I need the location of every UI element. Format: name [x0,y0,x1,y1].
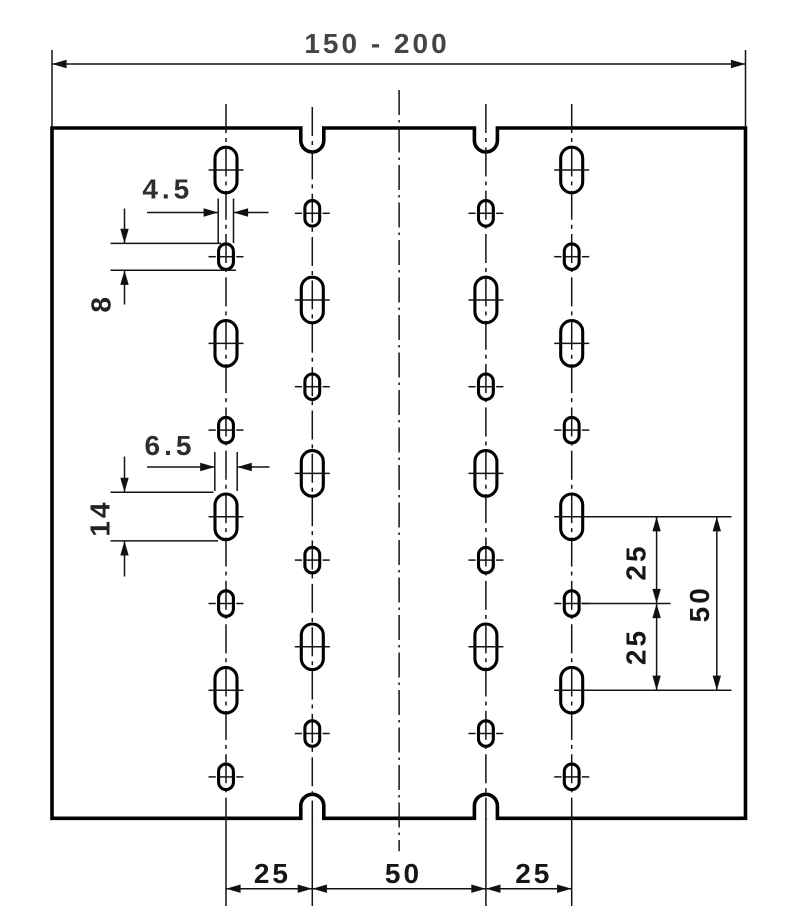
bottom arrowhead left-pointing at col2 [312,885,327,893]
right 50 top arrowhead [713,517,721,532]
8 dimension line top tail [124,209,126,244]
right dim extension line at upper slot [585,516,732,518]
bottom dim extension line col2 [311,818,313,906]
4.5 dimension line left tail [147,212,218,214]
right lower-25 top arrowhead [652,604,660,619]
column 2 centerline [311,107,313,820]
6.5 dim right extension line [236,452,238,491]
slot col4 row2 (small) [554,244,589,270]
slot col4 row4 (small) [554,417,589,443]
bottom arrowhead right-pointing at col2 [298,885,313,893]
bottom right arrowhead at col4 [557,885,572,893]
8 bottom arrowhead [120,270,128,285]
4.5 dimension line right tail [234,212,269,214]
center axis line [398,90,400,851]
slot col3 row1 (small) [468,201,503,227]
6.5 dim left extension line [214,452,216,491]
6.5 right arrowhead [237,463,252,471]
4.5 dim left extension line [217,199,219,244]
slot col2 row6 (large) [295,624,330,670]
bottom arrowhead right-pointing at col3 [471,885,486,893]
slot col1 row3 (large) [209,321,244,367]
slot col2 row5 (small) [295,547,330,573]
slot col4 row5 (large) [554,494,589,540]
bottom dim extension line col3 [485,818,487,906]
bottom dim extension line col4 [571,818,573,906]
svg-text:4.5: 4.5 [142,174,193,205]
slot col2 row4 (large) [295,451,330,497]
slot col4 row6 (small) [554,591,589,617]
plate outline with edge notches [52,128,746,818]
slot col1 row5 (large) [209,494,244,540]
slot col4 row7 (large) [554,667,589,713]
column 3 centerline [485,104,487,820]
bottom dim extension line col1 [225,818,227,906]
slot col3 row5 (small) [468,547,503,573]
8 dim bottom extension line [111,269,237,271]
14 dimension line bottom tail [124,541,126,577]
slot col2 row2 (large) [295,277,330,323]
slot col4 row3 (large) [554,321,589,367]
6.5 left arrowhead [200,463,215,471]
svg-text:6.5: 6.5 [145,430,196,461]
slot col3 row4 (large) [468,451,503,497]
svg-text:25: 25 [621,543,652,580]
slot col2 row7 (small) [295,721,330,747]
right dim extension line at lower slot [585,689,732,691]
bottom arrowhead left-pointing at col3 [486,885,501,893]
svg-text:14: 14 [85,499,116,536]
column 4 centerline [571,104,573,820]
column 1 centerline [225,104,227,820]
4.5 right arrowhead [234,208,249,216]
right 25/25 dimension line [656,517,658,690]
svg-text:150 - 200: 150 - 200 [304,28,449,59]
bottom dimension line [226,888,572,890]
bottom left arrowhead at col1 [226,885,241,893]
slot col3 row6 (large) [468,624,503,670]
14 bottom arrowhead [120,541,128,556]
slot col1 row8 (small) [209,764,244,790]
8 dimension line bottom tail [124,270,126,304]
slot col3 row3 (small) [468,374,503,400]
6.5 dimension line left tail [147,466,215,468]
top dim right arrowhead [731,60,746,68]
top dim left arrowhead [52,60,67,68]
top dim right extension line [745,50,747,127]
8 dim top extension line [111,242,222,244]
slot col4 row1 (large) [554,147,589,193]
right 50 bottom arrowhead [713,676,721,691]
svg-text:25: 25 [254,858,291,889]
14 top arrowhead [120,478,128,493]
14 dim bottom extension line [111,540,219,542]
top dimension line [52,63,746,65]
slot col4 row8 (small) [554,764,589,790]
slot col1 row6 (small) [209,591,244,617]
14 dimension line top tail [124,457,126,493]
right dim extension line at middle slot [581,603,670,605]
right 25 bottom arrowhead [652,676,660,691]
slot col2 row1 (small) [295,201,330,227]
slot col1 row4 (small) [209,417,244,443]
right 25 top arrowhead [652,517,660,532]
svg-text:50: 50 [684,585,715,622]
slot col3 row7 (small) [468,721,503,747]
svg-text:25: 25 [621,628,652,665]
14 dim top extension line [111,491,214,493]
6.5 dimension line right tail [237,466,269,468]
slot col1 row2 (small) [209,244,244,270]
slot col1 row1 (large) [209,147,244,193]
top dim left extension line [51,50,53,127]
svg-text:8: 8 [85,294,116,313]
slot col1 row7 (large) [209,667,244,713]
svg-text:25: 25 [515,858,552,889]
slot col2 row3 (small) [295,374,330,400]
slot col3 row2 (large) [468,277,503,323]
svg-text:50: 50 [385,858,422,889]
8 top arrowhead [120,229,128,244]
right upper-25 bottom arrowhead [652,589,660,604]
4.5 dim right extension line [233,199,235,244]
4.5 left arrowhead [204,208,219,216]
right 50 dimension line [716,517,718,690]
